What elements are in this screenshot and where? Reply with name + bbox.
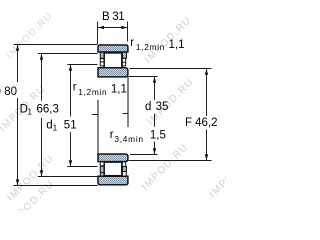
D1 dim line: [41, 54, 43, 177]
cage bar top right: [122, 58, 125, 66]
cage bar bottom right lower: [122, 172, 126, 177]
D80 ext top: [14, 44, 98, 46]
d1 arrow up: [69, 65, 72, 71]
svg-text:31: 31: [112, 11, 124, 23]
svg-text:d: d: [145, 101, 151, 113]
cage bar top left divider: [100, 61, 104, 63]
flange bottom left divider: [100, 171, 104, 173]
F dim line: [206, 69, 208, 161]
svg-text:r: r: [130, 37, 134, 49]
D80 arrow down: [16, 179, 19, 185]
F ext top: [130, 68, 212, 70]
roller bottom: [104, 162, 122, 176]
cage bar top right divider: [122, 61, 125, 63]
svg-text:B: B: [102, 11, 110, 23]
d arrow down: [153, 148, 156, 154]
svg-text:3,4min: 3,4min: [114, 134, 143, 144]
svg-text:F: F: [185, 117, 192, 129]
svg-text:1,5: 1,5: [150, 130, 166, 142]
inner ring bottom band: [98, 154, 128, 162]
F arrow down: [205, 154, 208, 160]
svg-text:IMPOD.RU: IMPOD.RU: [207, 149, 226, 200]
D1 ext top: [38, 53, 98, 55]
svg-text:1: 1: [27, 106, 32, 116]
d dim line: [154, 77, 156, 155]
svg-text:r: r: [110, 129, 114, 141]
outer ring top band: [98, 45, 128, 52]
outer ring top left flange: [100, 52, 104, 58]
inner ring top band: [98, 68, 128, 77]
d1 ext bottom: [67, 166, 97, 168]
svg-text:35: 35: [156, 101, 169, 113]
cage bar top left: [100, 59, 104, 66]
D80 ext bottom: [14, 185, 98, 187]
svg-text:51: 51: [64, 119, 77, 131]
d1 dim line: [70, 65, 72, 167]
B dim arrow left: [98, 26, 104, 29]
chamfer leader right: [123, 77, 128, 127]
svg-text:r: r: [73, 82, 77, 94]
D1 arrow down: [40, 170, 43, 176]
d1 arrow down: [69, 160, 72, 166]
D80 arrow up: [16, 45, 19, 51]
cage bar bottom right: [122, 162, 125, 167]
D80 dim line: [17, 45, 19, 186]
inner ring bottom right flange: [123, 167, 127, 172]
svg-text:D 80: D 80: [0, 86, 17, 98]
outer ring top right flange: [123, 52, 127, 58]
svg-text:1,2min: 1,2min: [136, 42, 165, 52]
d arrow up: [153, 77, 156, 83]
B dim extension line right: [127, 22, 129, 42]
outer ring bottom band: [98, 176, 128, 185]
outer ring bottom left flange: [100, 166, 104, 176]
roller top: [104, 53, 122, 68]
D1 ext bottom: [38, 176, 98, 178]
chamfer leader left: [92, 100, 98, 154]
B dim line: [98, 27, 127, 29]
svg-text:66,3: 66,3: [37, 103, 59, 115]
cage bar bottom left: [100, 162, 104, 166]
d1 ext top: [67, 64, 97, 66]
svg-text:IMPOD.RU: IMPOD.RU: [140, 142, 191, 193]
D1 arrow up: [40, 54, 43, 60]
svg-text:1,2min: 1,2min: [78, 87, 107, 97]
d ext top: [129, 76, 158, 78]
F ext bottom: [129, 160, 212, 162]
B dim extension line left: [97, 22, 99, 45]
d ext bottom: [130, 154, 158, 156]
svg-text:1: 1: [53, 122, 58, 132]
svg-text:1,1: 1,1: [169, 39, 185, 51]
B dim arrow right: [121, 26, 127, 29]
F arrow up: [205, 69, 208, 75]
bearing cross-section: [98, 45, 128, 185]
svg-text:46,2: 46,2: [195, 117, 217, 129]
svg-text:1,1: 1,1: [111, 84, 127, 96]
